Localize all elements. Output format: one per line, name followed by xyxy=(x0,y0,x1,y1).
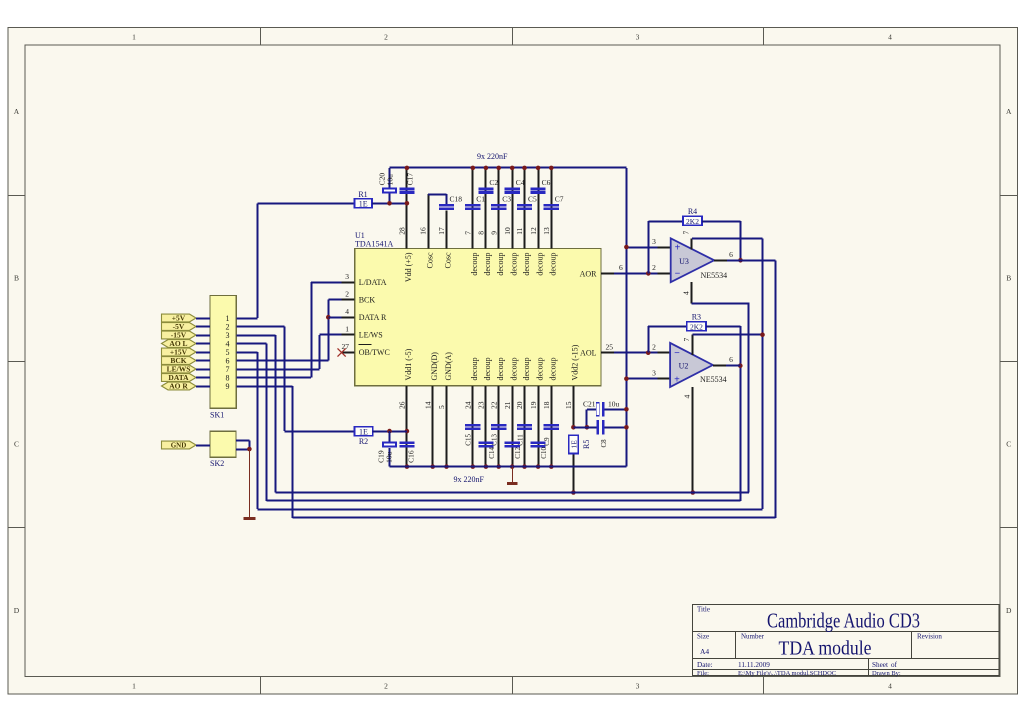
wire SK1 pin4 AOL xyxy=(236,344,266,501)
pin28 column wire xyxy=(406,168,408,249)
svg-text:5: 5 xyxy=(437,405,446,409)
svg-text:C12: C12 xyxy=(514,447,522,459)
svg-text:9: 9 xyxy=(226,382,230,391)
svg-text:9: 9 xyxy=(489,231,498,235)
svg-text:6: 6 xyxy=(729,355,733,364)
svg-text:+: + xyxy=(674,374,680,385)
svg-text:4: 4 xyxy=(682,395,691,399)
svg-text:decoup: decoup xyxy=(510,253,519,276)
U1 right pin AOL 25 xyxy=(580,343,614,358)
svg-text:10u: 10u xyxy=(386,174,395,186)
svg-text:18: 18 xyxy=(542,401,551,409)
svg-text:TDA1541A: TDA1541A xyxy=(355,240,393,249)
svg-text:2: 2 xyxy=(345,289,349,298)
svg-text:20: 20 xyxy=(515,401,524,409)
wire R1 left to SK1 pin1 xyxy=(258,203,355,318)
svg-text:6: 6 xyxy=(729,250,733,259)
svg-text:11.11.2009: 11.11.2009 xyxy=(738,661,770,669)
svg-text:Revision: Revision xyxy=(917,633,942,641)
svg-text:22: 22 xyxy=(489,401,498,409)
svg-text:9x 220nF: 9x 220nF xyxy=(454,475,485,484)
wire R2 left to SK1 pin2 xyxy=(285,431,355,433)
svg-text:24: 24 xyxy=(464,401,473,409)
svg-text:GND(A): GND(A) xyxy=(444,352,453,381)
svg-text:17: 17 xyxy=(437,227,446,235)
capacitor C5 xyxy=(517,194,537,210)
wire SK1 pin2 to R2 xyxy=(236,327,284,432)
U2 pin4 stub wire xyxy=(682,387,695,495)
svg-text:C8: C8 xyxy=(600,439,608,448)
svg-text:1: 1 xyxy=(132,682,136,691)
+15V long wire xyxy=(258,509,763,511)
svg-text:DATA R: DATA R xyxy=(359,313,387,322)
svg-text:decoup: decoup xyxy=(522,357,531,380)
junction dots R1 net xyxy=(387,166,409,206)
svg-text:decoup: decoup xyxy=(549,357,558,380)
connector SK2 body xyxy=(210,431,236,468)
U1 top pin numbers and names xyxy=(398,227,558,282)
AOL long wire xyxy=(266,500,740,502)
svg-text:Drawn By:: Drawn By: xyxy=(872,670,901,677)
svg-text:C9: C9 xyxy=(543,437,551,446)
capacitor C3 xyxy=(491,194,511,210)
svg-text:C1: C1 xyxy=(476,194,485,203)
svg-text:27: 27 xyxy=(342,342,350,351)
capacitor C11 xyxy=(516,424,532,446)
svg-text:SK1: SK1 xyxy=(210,410,224,419)
svg-text:15: 15 xyxy=(564,401,573,409)
svg-text:C2: C2 xyxy=(489,178,498,187)
svg-text:9x 220nF: 9x 220nF xyxy=(477,152,508,161)
svg-text:Date:: Date: xyxy=(697,661,713,669)
resistor R2 1E xyxy=(355,427,373,446)
svg-text:U2: U2 xyxy=(679,362,689,371)
svg-text:Vdd (+5): Vdd (+5) xyxy=(404,252,413,282)
svg-text:A: A xyxy=(14,107,20,116)
IC U1 TDA1541A body xyxy=(355,231,601,386)
svg-text:11: 11 xyxy=(515,227,524,234)
svg-text:AO R: AO R xyxy=(169,382,188,391)
wire SK1 pin8 L/DATA xyxy=(236,282,341,377)
svg-text:SK2: SK2 xyxy=(210,459,224,468)
capacitor C15 xyxy=(465,424,481,446)
svg-text:1: 1 xyxy=(345,325,349,334)
wire R3 right to output xyxy=(706,326,743,501)
-15V long wire xyxy=(275,492,749,494)
svg-text:LE/WS: LE/WS xyxy=(359,331,383,340)
U1 left pins L/DATA BCK DATA-R LE/WS OB/TWC xyxy=(342,272,390,357)
wire SK1 pin9 AOR xyxy=(236,386,292,518)
svg-text:Vdd2 (-15): Vdd2 (-15) xyxy=(571,344,580,380)
capacitor C20 10u xyxy=(377,173,397,194)
svg-text:Cambridge Audio CD3: Cambridge Audio CD3 xyxy=(767,609,920,633)
op-amp U3 NE5534 xyxy=(671,238,727,282)
wire BCK tee to DATA R xyxy=(328,317,341,319)
wire R4 right to output xyxy=(702,221,743,263)
capacitor C9 xyxy=(543,424,559,446)
svg-text:C4: C4 xyxy=(516,178,525,187)
svg-text:decoup: decoup xyxy=(470,357,479,380)
wire U2 output xyxy=(713,355,741,365)
svg-text:B: B xyxy=(14,274,19,283)
capacitor C16 xyxy=(399,441,415,463)
wire SK1 pin7 LE/WS xyxy=(236,335,341,370)
svg-text:Sheet: Sheet xyxy=(872,661,888,669)
svg-text:26: 26 xyxy=(398,401,407,409)
wire R2 right xyxy=(373,429,407,434)
svg-text:C5: C5 xyxy=(528,194,537,203)
decoupling cap columns pins 7-13 xyxy=(471,166,554,249)
svg-text:R2: R2 xyxy=(359,437,368,446)
resistor R4 2K2 xyxy=(683,207,702,226)
capacitor C12 xyxy=(505,441,522,458)
pin17 column xyxy=(446,211,448,249)
capacitor C8 xyxy=(597,420,608,448)
svg-text:decoup: decoup xyxy=(535,357,544,380)
wire C21 left leg xyxy=(585,409,596,429)
svg-text:BCK: BCK xyxy=(359,295,376,304)
pin5 column xyxy=(444,386,449,469)
svg-text:21: 21 xyxy=(503,401,512,409)
svg-text:C15: C15 xyxy=(465,434,473,446)
svg-text:AOL: AOL xyxy=(580,349,597,358)
capacitor C6 xyxy=(531,178,551,194)
svg-text:C7: C7 xyxy=(555,194,564,203)
svg-text:28: 28 xyxy=(398,227,407,235)
wire SK2 pins xyxy=(236,440,252,451)
svg-text:1E: 1E xyxy=(570,440,579,449)
svg-text:decoup: decoup xyxy=(549,253,558,276)
svg-text:C16: C16 xyxy=(407,450,416,463)
wire U3 pin3 input xyxy=(624,237,671,249)
svg-text:D: D xyxy=(14,606,20,615)
pin15 column xyxy=(571,386,576,495)
decoupling cap columns pins 24-18 xyxy=(471,386,554,469)
svg-text:4: 4 xyxy=(888,682,892,691)
bottom bus wire xyxy=(390,466,627,468)
svg-text:23: 23 xyxy=(477,401,486,409)
wire U2 pin3 input xyxy=(624,369,670,382)
svg-text:C: C xyxy=(1006,440,1011,449)
wire AOR to U3 pin2 xyxy=(614,263,671,276)
svg-text:−: − xyxy=(675,268,681,279)
capacitor C4 xyxy=(505,178,525,194)
no-ERC cross on pin 27 xyxy=(338,348,346,356)
AOR long wire xyxy=(293,517,776,519)
svg-text:7: 7 xyxy=(682,231,691,235)
svg-text:6: 6 xyxy=(619,263,623,272)
svg-text:19: 19 xyxy=(529,401,538,409)
ground symbol SK2 xyxy=(244,449,256,519)
svg-text:A4: A4 xyxy=(700,647,709,656)
svg-text:E:\My File's\..\TDA modul.SCHD: E:\My File's\..\TDA modul.SCHDOC xyxy=(738,670,836,677)
svg-text:25: 25 xyxy=(606,343,614,352)
svg-text:2: 2 xyxy=(652,343,656,352)
svg-text:NE5534: NE5534 xyxy=(700,375,727,384)
svg-text:7: 7 xyxy=(464,231,473,235)
svg-text:13: 13 xyxy=(542,227,551,235)
svg-text:4: 4 xyxy=(888,33,892,42)
svg-text:2: 2 xyxy=(384,33,388,42)
wire R3 feedback left xyxy=(648,326,687,353)
svg-text:C21: C21 xyxy=(583,400,596,409)
svg-text:decoup: decoup xyxy=(483,357,492,380)
svg-text:Cosc: Cosc xyxy=(425,252,434,268)
ground symbol on bottom bus xyxy=(507,467,518,484)
wire U3 output xyxy=(714,250,776,261)
capacitor C18 xyxy=(439,194,462,210)
capacitor C1 xyxy=(465,194,485,210)
SK1 ports +5V -5V -15V AOL +15V BCK LEWS DATA AOR xyxy=(162,314,211,391)
SK1 pin numbers 1-9 xyxy=(226,314,230,391)
svg-text:A: A xyxy=(1006,107,1012,116)
+15V vertical wire right xyxy=(760,238,765,509)
svg-text:1E: 1E xyxy=(359,427,368,436)
title block xyxy=(693,605,999,677)
U2 pin7 stub and wire xyxy=(682,335,763,355)
svg-text:8: 8 xyxy=(477,231,486,235)
connector SK1 body xyxy=(210,296,236,420)
svg-text:3: 3 xyxy=(636,682,640,691)
op-amp U2 NE5534 xyxy=(670,343,727,387)
svg-text:Number: Number xyxy=(741,633,765,641)
svg-text:4: 4 xyxy=(682,291,691,295)
svg-text:Title: Title xyxy=(697,606,710,614)
wire R1 right xyxy=(372,203,407,205)
svg-text:2K2: 2K2 xyxy=(690,323,703,332)
svg-text:AOR: AOR xyxy=(580,269,598,278)
svg-text:7: 7 xyxy=(682,338,691,342)
svg-text:decoup: decoup xyxy=(496,253,505,276)
svg-text:2K2: 2K2 xyxy=(686,217,699,226)
svg-text:C17: C17 xyxy=(406,173,415,186)
svg-text:1: 1 xyxy=(132,33,136,42)
svg-text:decoup: decoup xyxy=(483,253,492,276)
port GND xyxy=(162,441,211,450)
capacitor C7 xyxy=(544,194,564,210)
svg-text:decoup: decoup xyxy=(522,253,531,276)
label 9x 220nF top xyxy=(477,152,508,161)
svg-text:3: 3 xyxy=(652,369,656,378)
AOR vertical wire right xyxy=(775,260,777,518)
svg-text:C14: C14 xyxy=(488,447,496,459)
svg-text:of: of xyxy=(891,661,898,669)
svg-text:R4: R4 xyxy=(688,207,697,216)
capacitor C14 xyxy=(478,441,496,458)
svg-text:decoup: decoup xyxy=(496,357,505,380)
svg-text:R1: R1 xyxy=(358,190,367,199)
capacitor C21 10u xyxy=(583,400,620,417)
svg-text:4: 4 xyxy=(345,307,349,316)
svg-text:GND(D): GND(D) xyxy=(430,352,439,381)
svg-text:C10: C10 xyxy=(540,447,548,459)
svg-text:TDA module: TDA module xyxy=(779,639,872,660)
svg-text:decoup: decoup xyxy=(470,253,479,276)
wire top bus corner down to opamp column xyxy=(626,168,628,467)
svg-text:2: 2 xyxy=(652,263,656,272)
svg-text:D: D xyxy=(1006,606,1012,615)
wire C8 row xyxy=(573,425,628,430)
svg-text:U3: U3 xyxy=(679,257,689,266)
svg-text:−: − xyxy=(674,348,680,359)
U3 pin7 stub and +15V wire xyxy=(682,231,763,250)
svg-text:C3: C3 xyxy=(502,194,511,203)
wire R4 feedback left xyxy=(648,221,683,273)
svg-text:3: 3 xyxy=(345,272,349,281)
svg-text:3: 3 xyxy=(652,237,656,246)
capacitor C10 xyxy=(531,441,549,458)
wire SK1 pin1 to R1 xyxy=(236,318,257,320)
pin26 column xyxy=(405,386,410,469)
resistor R1 1E xyxy=(355,190,373,209)
capacitor C13 xyxy=(491,424,507,446)
svg-text:Size: Size xyxy=(697,633,709,641)
wire C21 right xyxy=(604,407,628,412)
wire SK1 pin5 +15V xyxy=(236,352,257,509)
svg-text:decoup: decoup xyxy=(535,253,544,276)
U1 right pin AOR 6 xyxy=(580,263,623,278)
svg-text:decoup: decoup xyxy=(510,357,519,380)
wire SK1 pin3 -15V xyxy=(236,335,275,493)
svg-text:B: B xyxy=(1006,274,1011,283)
svg-text:Vdd1 (-5): Vdd1 (-5) xyxy=(404,348,413,380)
pin14 column xyxy=(430,386,435,469)
svg-text:+: + xyxy=(675,243,681,254)
wire C20 top leg xyxy=(389,168,391,203)
svg-text:3: 3 xyxy=(636,33,640,42)
wire SK1 pin6 BCK xyxy=(236,300,341,361)
svg-text:2: 2 xyxy=(384,682,388,691)
svg-text:12: 12 xyxy=(529,227,538,235)
svg-text:Cosc: Cosc xyxy=(444,252,453,268)
pin16 column and link to C18 xyxy=(428,194,447,249)
top bus wire (+5V decoupling) xyxy=(390,167,627,169)
svg-text:C6: C6 xyxy=(542,178,551,187)
U1 bottom pin numbers and names xyxy=(398,344,580,409)
svg-text:16: 16 xyxy=(419,227,428,235)
svg-text:File:: File: xyxy=(697,670,709,677)
svg-text:R3: R3 xyxy=(692,312,701,321)
svg-text:10u: 10u xyxy=(385,451,394,463)
capacitor C17 xyxy=(399,173,414,194)
svg-text:OB/TWC: OB/TWC xyxy=(359,348,390,357)
resistor R3 2K2 xyxy=(687,312,706,331)
svg-text:10u: 10u xyxy=(608,400,620,409)
svg-text:14: 14 xyxy=(423,401,432,409)
svg-text:GND: GND xyxy=(171,442,187,450)
svg-text:C18: C18 xyxy=(450,194,463,203)
svg-text:C: C xyxy=(14,440,19,449)
svg-text:R5: R5 xyxy=(582,440,591,449)
capacitor C2 xyxy=(478,178,498,194)
svg-text:L/DATA: L/DATA xyxy=(359,278,387,287)
label 9x 220nF bottom xyxy=(454,475,485,484)
capacitor C19 10u xyxy=(376,431,397,467)
resistor R5 1E xyxy=(569,435,591,453)
U3 pin4 stub wire xyxy=(682,282,749,492)
svg-text:10: 10 xyxy=(503,227,512,235)
svg-text:1E: 1E xyxy=(359,199,368,208)
wire AOL to U2 pin2 xyxy=(614,343,670,356)
svg-text:NE5534: NE5534 xyxy=(701,271,728,280)
